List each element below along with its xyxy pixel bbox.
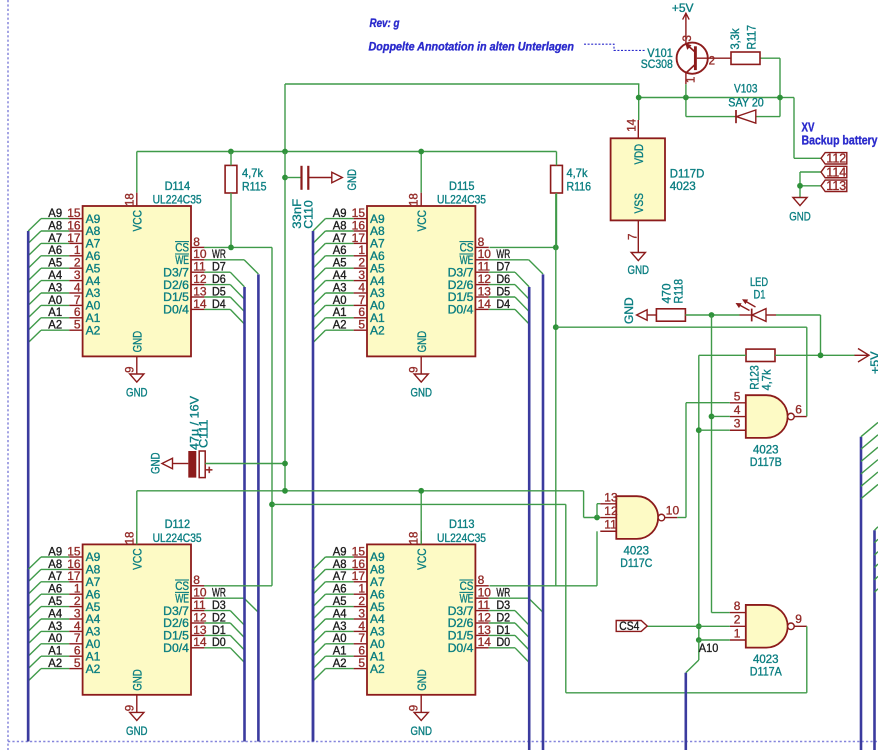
svg-text:C110: C110	[301, 200, 315, 229]
svg-text:A10: A10	[699, 641, 719, 655]
svg-text:5: 5	[358, 318, 365, 332]
svg-text:3: 3	[682, 35, 694, 41]
svg-text:4,7k: 4,7k	[759, 369, 773, 391]
svg-text:7: 7	[627, 234, 639, 240]
svg-text:GND: GND	[410, 385, 432, 399]
svg-text:SC308: SC308	[641, 57, 673, 71]
svg-text:+5V: +5V	[868, 352, 878, 375]
svg-text:GND: GND	[345, 169, 359, 191]
svg-text:D115: D115	[449, 179, 475, 193]
svg-text:VDD: VDD	[632, 144, 646, 165]
svg-text:A2: A2	[333, 318, 347, 332]
svg-text:10: 10	[666, 503, 680, 517]
svg-text:VCC: VCC	[130, 210, 144, 232]
svg-text:2: 2	[709, 56, 715, 68]
svg-text:GND: GND	[130, 669, 144, 691]
svg-text:CS4: CS4	[619, 621, 640, 633]
svg-text:A2: A2	[370, 662, 385, 676]
svg-text:D117C: D117C	[620, 556, 652, 570]
svg-text:D0/4: D0/4	[163, 303, 189, 317]
svg-text:R118: R118	[672, 279, 686, 304]
svg-text:D0/4: D0/4	[163, 641, 189, 655]
svg-text:GND: GND	[415, 331, 429, 353]
svg-text:5: 5	[358, 656, 365, 670]
svg-text:D113: D113	[449, 517, 475, 531]
svg-text:Rev: g: Rev: g	[370, 18, 400, 30]
svg-text:A2: A2	[48, 656, 62, 670]
svg-text:18: 18	[409, 532, 421, 545]
svg-text:9: 9	[795, 612, 802, 626]
svg-text:VSS: VSS	[632, 193, 646, 214]
svg-text:113: 113	[826, 179, 846, 193]
svg-text:A2: A2	[86, 323, 101, 337]
svg-text:D0/4: D0/4	[448, 641, 474, 655]
svg-text:GND: GND	[789, 210, 811, 224]
svg-text:VCC: VCC	[130, 548, 144, 570]
svg-text:C111: C111	[197, 419, 211, 448]
svg-text:8: 8	[734, 599, 741, 613]
svg-text:R116: R116	[567, 179, 592, 193]
svg-text:GND: GND	[628, 263, 650, 277]
svg-text:2: 2	[734, 613, 741, 627]
svg-text:18: 18	[409, 193, 421, 206]
svg-text:GND: GND	[148, 452, 162, 474]
svg-text:13: 13	[604, 490, 618, 504]
svg-text:R117: R117	[745, 25, 759, 50]
svg-text:18: 18	[124, 532, 136, 545]
svg-text:VCC: VCC	[415, 210, 429, 232]
svg-text:GND: GND	[410, 724, 432, 738]
svg-text:6: 6	[795, 402, 802, 416]
svg-text:114: 114	[826, 165, 846, 179]
svg-text:A2: A2	[86, 662, 101, 676]
svg-text:4023: 4023	[670, 179, 696, 193]
svg-text:D112: D112	[165, 517, 191, 531]
svg-text:XV: XV	[802, 121, 816, 135]
svg-text:D1: D1	[754, 287, 766, 301]
svg-text:V103: V103	[734, 82, 758, 96]
svg-text:SAY 20: SAY 20	[728, 95, 764, 109]
svg-text:R115: R115	[242, 179, 267, 193]
svg-text:GND: GND	[130, 331, 144, 353]
svg-text:1: 1	[686, 77, 698, 83]
svg-text:VCC: VCC	[415, 548, 429, 570]
svg-text:A2: A2	[333, 656, 347, 670]
svg-text:UL224C35: UL224C35	[437, 531, 486, 545]
svg-text:D0/4: D0/4	[448, 303, 474, 317]
svg-text:9: 9	[409, 705, 421, 711]
svg-text:5: 5	[734, 389, 741, 403]
svg-text:3,3k: 3,3k	[728, 28, 742, 50]
svg-text:UL224C35: UL224C35	[437, 193, 486, 207]
svg-text:D114: D114	[165, 179, 191, 193]
svg-text:5: 5	[74, 656, 81, 670]
svg-text:1: 1	[734, 626, 741, 640]
svg-text:A2: A2	[48, 318, 62, 332]
svg-text:12: 12	[604, 504, 618, 518]
svg-text:GND: GND	[415, 669, 429, 691]
svg-text:D117A: D117A	[750, 665, 782, 679]
svg-text:Backup battery: Backup battery	[802, 134, 878, 148]
svg-text:+5V: +5V	[672, 1, 694, 15]
svg-text:4,7k: 4,7k	[242, 166, 264, 180]
svg-text:14: 14	[626, 118, 638, 131]
svg-text:Doppelte Annotation in alten U: Doppelte Annotation in alten Unterlagen	[369, 42, 575, 54]
svg-text:UL224C35: UL224C35	[153, 193, 202, 207]
svg-text:D117B: D117B	[750, 455, 782, 469]
svg-text:11: 11	[604, 518, 617, 532]
svg-text:GND: GND	[622, 297, 636, 324]
svg-text:4: 4	[734, 403, 741, 417]
svg-text:4,7k: 4,7k	[567, 166, 589, 180]
svg-text:112: 112	[826, 152, 846, 166]
svg-text:18: 18	[124, 193, 136, 206]
svg-text:9: 9	[124, 705, 136, 711]
svg-text:3: 3	[734, 417, 741, 431]
svg-text:+: +	[206, 463, 213, 477]
svg-text:A2: A2	[370, 323, 385, 337]
svg-text:5: 5	[74, 318, 81, 332]
svg-text:GND: GND	[126, 724, 148, 738]
svg-text:UL224C35: UL224C35	[153, 531, 202, 545]
svg-text:9: 9	[124, 366, 136, 372]
svg-text:9: 9	[409, 366, 421, 372]
svg-text:GND: GND	[126, 385, 148, 399]
